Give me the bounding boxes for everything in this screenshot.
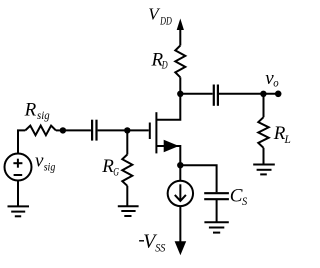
svg-text:VDD: VDD: [148, 5, 172, 28]
wire drain node to output capacitor: [180, 93, 212, 95]
plus sign: [13, 159, 22, 168]
node input: [60, 127, 66, 133]
svg-text:vo: vo: [265, 68, 279, 90]
source vsig: [5, 154, 32, 181]
node drain junction: [177, 91, 183, 97]
drain lead: [156, 94, 180, 120]
wire vo node to RL: [263, 94, 265, 117]
channel: [155, 112, 157, 153]
node source junction: [177, 162, 183, 168]
capacitor CC2 (output coupling): [214, 85, 218, 106]
minus sign: [14, 174, 23, 176]
wire RL to ground: [263, 148, 265, 165]
wire CC1 to gate node: [98, 129, 128, 131]
source lead: [156, 146, 180, 165]
capacitor CS: [204, 193, 229, 199]
svg-text:Rsig: Rsig: [24, 100, 50, 122]
svg-text:RL: RL: [273, 123, 291, 146]
wire gate node to MOSFET gate: [127, 129, 149, 131]
power supply VDD arrow: [177, 19, 184, 46]
wire input node to CC1: [63, 129, 91, 131]
ground under RL: [253, 165, 275, 175]
svg-text:vsig: vsig: [35, 151, 56, 174]
wire current source to VSS arrow: [179, 206, 181, 243]
wire RD bottom to drain node: [179, 77, 181, 94]
node output terminal: [275, 91, 282, 98]
wire Rsig to input node: [56, 129, 63, 131]
gate plate: [149, 123, 151, 140]
svg-text:RD: RD: [151, 49, 169, 71]
ground under RG: [118, 206, 139, 216]
wire source node to CS: [180, 165, 216, 192]
wire source node down to current source: [179, 165, 181, 181]
ground under vsig: [8, 206, 30, 216]
resistor RD: [175, 46, 185, 78]
wire vsig bottom to ground: [17, 181, 19, 207]
current source I: [168, 181, 193, 206]
node gate: [124, 127, 130, 133]
power supply -VSS arrow: [175, 241, 187, 255]
resistor RL: [258, 117, 268, 148]
ground under CS: [204, 222, 228, 232]
svg-text:RG: RG: [101, 156, 119, 179]
node vo: [260, 91, 266, 97]
wire RG to ground: [126, 186, 128, 207]
source arrowhead: [164, 140, 179, 152]
resistor RG: [122, 155, 132, 186]
svg-text:-VSS: -VSS: [138, 230, 165, 255]
wire CS to ground: [216, 199, 218, 222]
wire vsig top to Rsig: [18, 130, 25, 153]
wire capacitor to vo node: [219, 93, 278, 95]
transistor Q1 (NMOS): [150, 94, 181, 165]
resistor Rsig: [25, 126, 56, 136]
capacitor CC1 (input coupling): [92, 120, 96, 141]
svg-text:CS: CS: [230, 186, 248, 209]
wire gate node down to RG: [126, 130, 128, 154]
